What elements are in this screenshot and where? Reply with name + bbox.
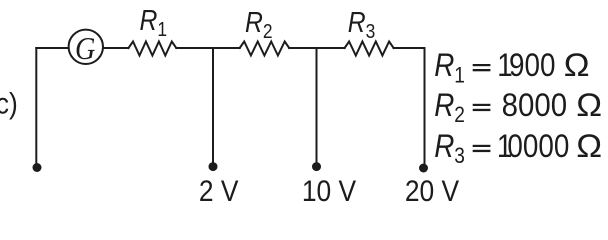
wire galvanometer to R1	[103, 47, 129, 49]
wire R1 to R2 through node 2V	[176, 47, 239, 49]
svg-text:G: G	[75, 30, 96, 66]
svg-text:Ω: Ω	[576, 129, 602, 165]
node label 20 V	[405, 173, 459, 207]
terminal dot 10V	[312, 162, 321, 171]
galvanometer G circle	[69, 30, 103, 64]
svg-text:2 V: 2 V	[199, 173, 239, 207]
svg-text:R3: R3	[348, 7, 376, 43]
terminal dot 20V	[419, 164, 428, 173]
resistor R2 zigzag	[240, 42, 290, 56]
wire right vertical drop to 20V terminal	[424, 48, 426, 165]
resistor R1 zigzag	[129, 42, 177, 56]
wire R3 to right corner	[394, 47, 425, 49]
label R1	[140, 5, 168, 41]
svg-text:Ω: Ω	[576, 88, 602, 124]
svg-text:8000: 8000	[502, 87, 567, 123]
node label 2 V	[199, 173, 239, 207]
wire top-left horizontal to galvanometer	[36, 47, 68, 49]
label R2	[245, 7, 273, 43]
wire R2 to R3 through node 10V	[289, 47, 344, 49]
value line R3 = 10000 ohm	[434, 129, 602, 168]
node label 10 V	[302, 173, 356, 207]
value line R1 = 1900 ohm	[434, 48, 589, 87]
wire 10V tap vertical	[316, 48, 318, 164]
item label c)	[0, 86, 18, 120]
wire 2V tap vertical	[212, 48, 214, 164]
value line R2 = 8000 ohm	[434, 87, 602, 128]
galvanometer label G	[75, 30, 96, 66]
terminal dot 2V	[209, 162, 218, 171]
svg-text:R2: R2	[434, 88, 465, 127]
svg-text:R2: R2	[245, 7, 273, 43]
wire left vertical drop	[35, 48, 37, 165]
svg-text:R1: R1	[434, 48, 465, 87]
svg-text:c): c)	[0, 86, 18, 120]
svg-text:0000: 0000	[507, 129, 569, 164]
svg-text:Ω: Ω	[564, 48, 590, 84]
svg-text:R3: R3	[434, 129, 465, 168]
svg-text:900: 900	[509, 48, 555, 83]
terminal dot left	[33, 163, 42, 172]
label R3	[348, 7, 376, 43]
svg-text:20 V: 20 V	[405, 173, 459, 207]
svg-text:R1: R1	[140, 5, 168, 41]
resistor R3 zigzag	[345, 42, 394, 56]
svg-text:10 V: 10 V	[302, 173, 356, 207]
